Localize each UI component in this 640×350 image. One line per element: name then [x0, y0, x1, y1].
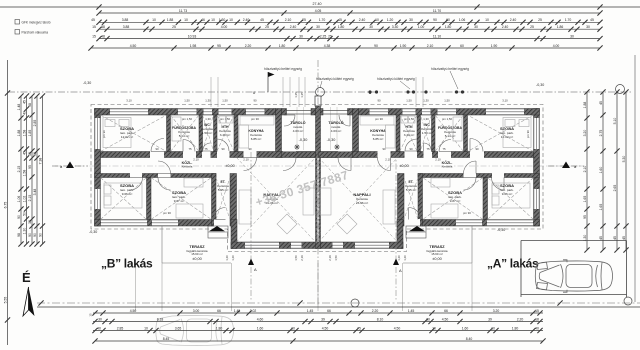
- unit B szoba2 bed: [104, 183, 142, 208]
- svg-text:1,30: 1,30: [205, 117, 211, 121]
- unit A furdo north window: [438, 109, 457, 116]
- svg-text:60: 60: [446, 18, 450, 22]
- svg-text:-0,30: -0,30: [89, 230, 97, 234]
- extension line x=318: [317, 263, 319, 311]
- dim chain left 4: [28, 93, 35, 246]
- svg-text:75: 75: [188, 147, 192, 151]
- svg-text:pm 1,50: pm 1,50: [182, 117, 193, 121]
- unit A et label: [405, 180, 417, 192]
- unit A szoba3 cabinet: [431, 178, 450, 187]
- extension line x=472: [471, 263, 473, 311]
- svg-text:45: 45: [260, 18, 264, 22]
- svg-text:90: 90: [155, 147, 159, 151]
- svg-text:30: 30: [474, 25, 478, 29]
- svg-text:±0,00: ±0,00: [225, 164, 234, 168]
- svg-text:1.45: 1.45: [234, 309, 241, 313]
- svg-text:2.20: 2.20: [245, 44, 252, 48]
- svg-text:40: 40: [535, 326, 539, 330]
- svg-text:39: 39: [488, 317, 492, 321]
- extension line top x=305: [304, 77, 306, 107]
- unit A furdo-wc wall: [432, 115, 436, 152]
- extension line x=231.5: [231, 263, 233, 311]
- svg-text:2.10: 2.10: [583, 166, 587, 173]
- svg-text:2.85: 2.85: [117, 326, 124, 330]
- unit B szoba2 cross: [101, 178, 147, 220]
- svg-text:66: 66: [444, 309, 448, 313]
- unit A nappali sofa: [383, 190, 395, 224]
- dim chain bottom row 1: [92, 309, 543, 316]
- unit B hth appliances: [219, 116, 233, 123]
- svg-text:1.80: 1.80: [279, 44, 286, 48]
- svg-text:75: 75: [357, 326, 361, 330]
- unit A furdo door opening: [438, 151, 451, 158]
- unit A konyha north window: [370, 109, 389, 116]
- unit B entrance arrow: [209, 226, 225, 231]
- unit A entrance opening: [406, 219, 420, 227]
- party wall hatch: [316, 106, 321, 243]
- unit B exterior side wall: [95, 109, 101, 227]
- legend item 1: [15, 20, 51, 25]
- unit A szoba3 bed: [431, 204, 458, 218]
- svg-text:1.20: 1.20: [387, 18, 394, 22]
- svg-text:4.50: 4.50: [442, 317, 449, 321]
- svg-text:1,50: 1,50: [406, 99, 412, 103]
- svg-text:10: 10: [211, 18, 215, 22]
- svg-text:7.38: 7.38: [39, 158, 43, 165]
- section marker a left: [52, 162, 88, 170]
- svg-text:40: 40: [23, 111, 27, 115]
- dim chain top row 5: [88, 44, 602, 51]
- label heat pump outdoor unit center: [316, 77, 354, 88]
- svg-text:1.58: 1.58: [23, 170, 27, 177]
- svg-text:10: 10: [375, 18, 379, 22]
- svg-text:33: 33: [28, 220, 32, 224]
- svg-text:90: 90: [248, 147, 252, 151]
- unit A hth door opening: [405, 151, 418, 158]
- unit B terasz outline: [162, 226, 231, 263]
- svg-text:3.88: 3.88: [122, 18, 129, 22]
- unit A entrance step: [406, 226, 426, 238]
- unit A entrance arrow: [409, 226, 425, 231]
- unit A szoba1 north window: [486, 109, 524, 116]
- svg-text:4.05: 4.05: [315, 9, 322, 13]
- svg-text:38: 38: [101, 25, 105, 29]
- unit B hth-konyha wall: [234, 115, 238, 152]
- svg-text:2.40: 2.40: [290, 25, 297, 29]
- svg-text:27.40: 27.40: [313, 2, 322, 6]
- extension line x=162: [161, 263, 163, 311]
- svg-text:38: 38: [33, 152, 37, 156]
- svg-text:1.90: 1.90: [400, 44, 407, 48]
- svg-text:66: 66: [217, 309, 221, 313]
- extension line x=402.5: [402, 263, 404, 311]
- dim chain right 4: [622, 89, 629, 252]
- svg-text:1.02: 1.02: [23, 196, 27, 203]
- bottom solid line: [37, 306, 640, 308]
- svg-text:60: 60: [460, 44, 464, 48]
- dim chain bottom row 4: [92, 337, 545, 344]
- outdoor unit dots: [368, 90, 464, 93]
- svg-text:2.40: 2.40: [359, 18, 366, 22]
- unit A taralo door arc: [339, 115, 350, 126]
- unit A szoba1 door opening: [470, 151, 484, 158]
- center axis line: [317, 60, 319, 305]
- svg-text:98: 98: [28, 103, 32, 107]
- unit A konyha door arc: [378, 158, 391, 171]
- unit B wc north window: [204, 109, 213, 116]
- unit B furdo door arc: [183, 140, 195, 152]
- svg-text:1.60: 1.60: [599, 167, 603, 174]
- svg-text:±0,00: ±0,00: [192, 257, 201, 261]
- unit B taralo north stub 2: [311, 109, 316, 116]
- unit B szoba3 cabinet: [184, 178, 203, 187]
- dim chain top row 1: [96, 9, 602, 16]
- svg-text:hőszivattyú kültéri egység: hőszivattyú kültéri egység: [377, 77, 415, 81]
- unit B entrance door arc: [214, 208, 226, 220]
- unit A taralo drain symbol: [334, 144, 340, 150]
- unit B szoba2 door opening: [130, 173, 142, 178]
- unit B szoba1 cross: [101, 115, 167, 152]
- dim chain top row 2: [91, 18, 602, 25]
- unit A taralo north stub 2: [319, 109, 324, 116]
- unit A wc door arc: [424, 143, 432, 151]
- unit B konyha door opening: [244, 151, 257, 158]
- unit A konyha counter: [360, 116, 395, 148]
- svg-text:2.65: 2.65: [613, 185, 617, 192]
- svg-text:25: 25: [530, 25, 534, 29]
- site axis dash-dot line: [8, 91, 632, 93]
- svg-text:4.00: 4.00: [221, 25, 228, 29]
- svg-text:11.10: 11.10: [433, 34, 441, 38]
- svg-text:-0,30: -0,30: [299, 138, 308, 142]
- unit A taralo south wall: [319, 152, 353, 158]
- unit A szoba3 cross: [423, 178, 484, 220]
- svg-text:95: 95: [217, 44, 221, 48]
- extension line taralo x=337: [336, 107, 338, 150]
- unit A szoba3 label: [448, 190, 462, 203]
- svg-text:±0,00: ±0,00: [432, 257, 441, 261]
- survey circle on axis: [316, 88, 325, 97]
- svg-text:15: 15: [92, 34, 96, 38]
- unit B taralo label: [290, 120, 305, 133]
- dim chain right 2: [599, 89, 606, 252]
- svg-text:1,50: 1,50: [184, 99, 190, 103]
- label heat pump outdoor unit right: [377, 77, 415, 89]
- svg-text:1.60: 1.60: [462, 326, 469, 330]
- svg-text:pm 90: pm 90: [102, 130, 106, 138]
- svg-text:10: 10: [491, 326, 495, 330]
- unit A szoba3 door opening: [464, 173, 477, 178]
- unit B szoba2 door arc: [130, 178, 143, 191]
- unit B furdo north window: [178, 109, 197, 116]
- svg-text:pm 90: pm 90: [163, 211, 171, 215]
- unit B nappali table: [277, 214, 297, 234]
- unit A nappali south wall: [321, 242, 404, 249]
- svg-text:3.00: 3.00: [193, 309, 200, 313]
- svg-text:10: 10: [184, 18, 188, 22]
- extension line taralo x=297: [296, 107, 298, 150]
- svg-text:1,30: 1,30: [423, 117, 429, 121]
- unit B north facade wall: [95, 109, 276, 116]
- svg-text:4.50: 4.50: [130, 44, 137, 48]
- svg-text:18: 18: [535, 317, 539, 321]
- unit B konyha label: [248, 129, 264, 141]
- unit B szoba3 bed: [176, 204, 203, 218]
- unit A hth appliances: [401, 116, 415, 123]
- svg-text:3.65: 3.65: [175, 326, 182, 330]
- north arrow: [23, 287, 35, 316]
- unit A north facade wall: [359, 109, 540, 116]
- dim chain left 5: [33, 93, 40, 246]
- unit B kozl label: [182, 160, 193, 169]
- unit A et cross: [404, 178, 418, 220]
- svg-text:GFK melegvíz tároló: GFK melegvíz tároló: [22, 21, 51, 25]
- unit A et-nappali wall: [398, 174, 405, 227]
- svg-text:Kerámia: Kerámia: [182, 165, 193, 169]
- unit B taralo north opening: [282, 111, 316, 115]
- svg-text:8.45: 8.45: [163, 337, 170, 341]
- unit A nappali window 1: [355, 242, 389, 249]
- svg-text:90: 90: [433, 18, 437, 22]
- unit B szoba3-et wall: [212, 174, 217, 227]
- unit A furdo door arc: [439, 140, 451, 152]
- unit B hth door arc: [217, 139, 229, 151]
- unit A taralo label: [328, 120, 343, 133]
- svg-text:15.60 m²: 15.60 m²: [431, 252, 442, 256]
- unit A szoba3 door arc down: [464, 178, 477, 191]
- svg-text:39: 39: [321, 317, 325, 321]
- svg-text:1.80: 1.80: [216, 326, 223, 330]
- extension line x=135.5: [135, 263, 137, 311]
- svg-text:4.38: 4.38: [324, 44, 331, 48]
- unit B szoba1 door opening: [150, 151, 164, 158]
- svg-text:26.06 m²: 26.06 m²: [356, 201, 368, 205]
- svg-text:10: 10: [432, 326, 436, 330]
- car A top view: [535, 260, 612, 292]
- svg-text:10: 10: [229, 18, 233, 22]
- svg-text:1.00: 1.00: [418, 25, 425, 29]
- survey circle bottom right: [624, 297, 632, 305]
- svg-text:3,10: 3,10: [502, 99, 508, 103]
- section line A right: [395, 152, 397, 300]
- svg-text:pm 90: pm 90: [375, 117, 383, 121]
- svg-text:1,35: 1,35: [300, 92, 304, 98]
- svg-text:10.93: 10.93: [188, 34, 197, 38]
- svg-text:2,19: 2,19: [300, 255, 304, 261]
- unit B taralo drain symbol: [294, 144, 300, 150]
- svg-text:46: 46: [201, 18, 205, 22]
- section marker A bottom right: [393, 259, 402, 274]
- unit B wc label: [201, 123, 213, 135]
- unit B wc cross: [203, 115, 214, 151]
- unit A hth-konyha wall: [396, 115, 400, 152]
- unit A wc cross: [421, 115, 432, 151]
- unit B szoba3 south window: [152, 220, 178, 227]
- dim chain top row 3: [92, 25, 602, 32]
- unit A terasz outline: [403, 226, 472, 263]
- svg-text:1,50: 1,50: [334, 255, 338, 261]
- unit B nappali window 2: [291, 242, 302, 249]
- extension line top x=299: [298, 77, 300, 107]
- svg-text:90: 90: [377, 99, 381, 103]
- svg-text:90: 90: [374, 44, 378, 48]
- svg-text:2.10: 2.10: [427, 44, 434, 48]
- unit B szoba3 door arc down: [158, 178, 171, 191]
- svg-text:45: 45: [23, 100, 27, 104]
- dim chain right 1: [583, 89, 590, 252]
- unit B szoba3 door opening: [158, 173, 171, 178]
- unit A hth label: [403, 125, 415, 137]
- svg-text:25: 25: [328, 34, 332, 38]
- unit B szoba2 south window: [101, 220, 147, 227]
- unit A nappali diagonal dashes: [319, 158, 398, 243]
- unit B taralo south wall: [282, 152, 316, 158]
- section line a-a across: [55, 165, 583, 167]
- extension line top x=290: [289, 77, 291, 107]
- svg-text:1,35: 1,35: [294, 92, 298, 98]
- svg-text:66: 66: [327, 309, 331, 313]
- svg-text:90: 90: [39, 233, 43, 237]
- svg-text:25: 25: [265, 25, 269, 29]
- svg-text:1.06: 1.06: [459, 18, 466, 22]
- unit A exterior side wall: [534, 109, 540, 227]
- unit A taralo side wall: [353, 109, 359, 158]
- svg-text:1.86: 1.86: [557, 25, 564, 29]
- svg-text:30: 30: [586, 25, 590, 29]
- svg-text:3,10: 3,10: [126, 99, 132, 103]
- svg-text:8.10: 8.10: [377, 317, 384, 321]
- svg-text:4.60: 4.60: [257, 317, 264, 321]
- svg-text:3.20: 3.20: [493, 309, 500, 313]
- unit B wc-hth wall: [214, 115, 218, 152]
- svg-text:30: 30: [570, 34, 574, 38]
- section marker A bottom left: [248, 259, 257, 273]
- svg-text:3.20: 3.20: [583, 130, 587, 137]
- svg-text:30: 30: [316, 25, 320, 29]
- unit B szoba2-szoba3 wall: [147, 178, 152, 220]
- svg-text:90: 90: [475, 147, 479, 151]
- unit A wc north window: [422, 109, 431, 116]
- svg-text:1,20: 1,20: [225, 255, 229, 261]
- svg-text:„A” lakás: „A” lakás: [487, 257, 539, 271]
- svg-text:Parshom vákuuma: Parshom vákuuma: [22, 31, 49, 35]
- unit B szoba1 bed: [103, 118, 131, 148]
- section line A left: [250, 152, 252, 300]
- svg-text:1.45: 1.45: [307, 309, 314, 313]
- extension line taralo x=330.5: [330, 107, 332, 150]
- svg-text:1.70: 1.70: [565, 18, 572, 22]
- unit B konyha north window: [246, 109, 265, 116]
- unit B taralo side wall: [276, 109, 282, 158]
- svg-text:90: 90: [409, 147, 413, 151]
- dim chain top row 4: [92, 34, 602, 41]
- unit A nappali door arc: [338, 158, 351, 171]
- dim chain left 2: [17, 93, 24, 246]
- unit A hth cross: [400, 115, 417, 151]
- svg-text:2.20: 2.20: [517, 317, 524, 321]
- unit A szoba2 label: [500, 183, 514, 196]
- svg-text:1.90: 1.90: [491, 44, 498, 48]
- unit B szoba3 door arc up: [158, 161, 171, 174]
- svg-text:5.95 m²: 5.95 m²: [218, 188, 229, 192]
- svg-text:98: 98: [17, 233, 21, 237]
- svg-text:2,19: 2,19: [328, 255, 332, 261]
- unit A szoba1 door arc: [470, 139, 483, 152]
- svg-text:95: 95: [583, 215, 587, 219]
- svg-text:45: 45: [338, 18, 342, 22]
- unit B szoba3 label: [172, 190, 186, 203]
- svg-text:2.15: 2.15: [17, 166, 21, 173]
- svg-text:Kerámia: Kerámia: [442, 165, 453, 169]
- parking pad: [521, 241, 627, 298]
- unit A furdo tub: [453, 117, 462, 141]
- svg-text:6.85 m²: 6.85 m²: [373, 137, 384, 141]
- svg-text:1.80: 1.80: [338, 25, 345, 29]
- unit B furdo tub: [172, 117, 181, 141]
- svg-text:pm 1,50: pm 1,50: [442, 117, 453, 121]
- extension line top x=218: [217, 77, 219, 107]
- unit A furdoszoba label: [438, 125, 462, 138]
- svg-text:1.50 m²: 1.50 m²: [422, 131, 433, 135]
- unit A szoba2 bed: [492, 183, 530, 208]
- svg-text:45: 45: [91, 18, 95, 22]
- unit B nappali door arc: [283, 158, 296, 171]
- svg-text:75: 75: [204, 147, 208, 151]
- site boundary top line: [0, 2, 640, 10]
- unit B nappali side wall: [231, 220, 237, 249]
- unit B nappali shelf: [303, 188, 314, 215]
- unit B nappali sofa: [239, 190, 251, 224]
- dim chain bottom row 2: [92, 317, 543, 324]
- unit A terasz label: [426, 245, 447, 261]
- unit A taralo north stub 1: [348, 109, 353, 116]
- svg-text:1.48: 1.48: [17, 104, 21, 111]
- svg-text:hőszivattyú kültéri egység: hőszivattyú kültéri egység: [316, 77, 354, 81]
- svg-text:-0,30: -0,30: [83, 81, 91, 85]
- unit B hth north window: [219, 109, 232, 116]
- svg-text:5.55: 5.55: [4, 297, 8, 304]
- legend item 2: [15, 30, 48, 35]
- svg-text:90: 90: [28, 233, 32, 237]
- unit A konyha door opening: [378, 151, 391, 158]
- site boundary right: [634, 55, 636, 302]
- unit B nappali diagonal dashes: [237, 158, 316, 243]
- svg-text:45: 45: [599, 101, 603, 105]
- unit A nappali label: [353, 192, 370, 205]
- svg-text:25: 25: [302, 18, 306, 22]
- unit B szoba1-furdo wall: [167, 115, 171, 152]
- svg-text:1,30: 1,30: [423, 99, 429, 103]
- unit A szoba2 door opening: [492, 173, 504, 178]
- svg-text:A: A: [399, 268, 402, 273]
- svg-text:10: 10: [291, 326, 295, 330]
- svg-text:1,50: 1,50: [444, 99, 450, 103]
- unit A szoba1 cross: [468, 115, 534, 152]
- svg-text:8.40: 8.40: [466, 337, 473, 341]
- svg-text:90: 90: [17, 215, 21, 219]
- unit A hth door arc: [405, 139, 417, 151]
- svg-text:-0,30: -0,30: [497, 228, 505, 232]
- svg-text:hőszivattyú beltéri egység: hőszivattyú beltéri egység: [431, 67, 469, 71]
- unit A nappali window 2: [333, 242, 344, 249]
- section marker a right: [548, 162, 584, 170]
- svg-text:11.73: 11.73: [179, 9, 187, 13]
- unit B szoba1 north window: [110, 109, 148, 116]
- survey circle right: [616, 85, 625, 94]
- unit A szoba2-szoba3 wall: [483, 178, 488, 220]
- unit A szoba1 side window: [534, 118, 540, 149]
- svg-text:2.40: 2.40: [510, 18, 517, 22]
